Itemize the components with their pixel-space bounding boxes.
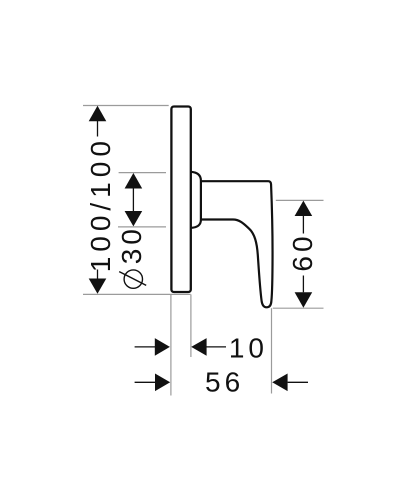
hub taper (fillet-neck-fillet between plate and lever) xyxy=(191,172,201,228)
dimension 10 line segments (y=346.9) xyxy=(135,346,156,348)
arrow down (30 bottom) xyxy=(125,211,143,226)
lever handle outline xyxy=(201,181,273,307)
extension line hub bottom (y=226.9) xyxy=(118,226,166,228)
svg-text:30: 30 xyxy=(116,225,147,264)
arrow up (60 top) xyxy=(295,201,313,216)
svg-text:10: 10 xyxy=(229,333,268,364)
vertical extension line plate left edge xyxy=(170,294,172,395)
vertical extension line plate right edge xyxy=(190,294,192,357)
arrow left (10 right side) xyxy=(191,338,206,356)
extension line top-left (plate top, y=105.5) xyxy=(83,105,169,107)
dimension 56 line segments (y=382.3) xyxy=(135,381,156,383)
svg-text:60: 60 xyxy=(287,232,318,271)
arrow up (100/100 top) xyxy=(89,106,107,121)
arrow left (56 right side) xyxy=(272,374,287,392)
arrow down (100/100 bottom) xyxy=(89,279,107,294)
extension line hub top (y=172.6) xyxy=(119,172,166,174)
diameter symbol circle xyxy=(124,270,142,288)
extension line bottom-left (plate bottom, y=294.4) xyxy=(83,293,191,295)
svg-text:56: 56 xyxy=(205,366,244,397)
arrow right (10 left side) xyxy=(155,338,170,356)
arrow down (60 bottom) xyxy=(295,292,313,308)
extension line lever axis right (y=200.4) xyxy=(276,199,324,201)
dimension 30 line (x=133.4) xyxy=(132,188,134,211)
svg-text:100/100: 100/100 xyxy=(85,136,116,272)
dimension 60 line segments (x=303.4) xyxy=(302,216,304,234)
arrow right (56 left side) xyxy=(155,374,170,392)
escutcheon plate (side view rectangle) xyxy=(171,107,190,293)
arrow up (30 top) xyxy=(125,173,143,189)
vertical extension line lever tip xyxy=(271,308,273,393)
extension line lever tip right (y=308.2) xyxy=(273,307,324,309)
dimension 100/100 line segments (x=97.5) xyxy=(97,121,99,137)
diameter symbol slash xyxy=(119,272,146,286)
